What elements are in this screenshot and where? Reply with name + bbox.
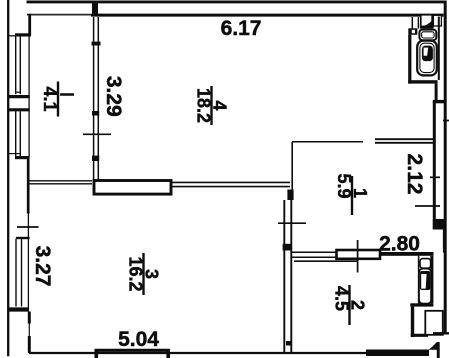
node shelf fixture right: [433, 15, 441, 26]
window A glazing: [15, 36, 17, 94]
wall pier cap 1: [9, 95, 30, 98]
wire left inner wall mid: [27, 157, 30, 214]
wall toilet2 right thick: [430, 256, 433, 303]
wire top wall outer line: [27, 0, 445, 3]
wall room1 top double line: [375, 138, 433, 140]
wire room2 lower line: [294, 260, 358, 262]
node partition junction block 3: [92, 156, 99, 161]
wire left inner wall bottom lower: [28, 336, 31, 353]
wall bathroom partition double line: [411, 17, 413, 29]
node door block room3 top: [94, 181, 171, 195]
window C glazing: [15, 239, 17, 307]
svg-text:16.2: 16.2: [126, 256, 146, 291]
node bathroom dark block: [408, 28, 417, 35]
toilet bowl top-right: [417, 41, 437, 76]
svg-text:5.9: 5.9: [334, 174, 354, 199]
wall balcony box left stub: [95, 349, 99, 358]
label dimension 2.12 rotated: [403, 154, 426, 195]
node partition block b: [286, 341, 292, 346]
wire shaft below thin: [443, 230, 445, 253]
node entry box: [425, 311, 443, 335]
wire room1 top wall thin: [292, 141, 363, 143]
wall bathroom bottom: [408, 80, 437, 83]
wall entry right stub: [437, 342, 440, 358]
wall cap D: [9, 307, 29, 311]
node dimension tick right wall: [443, 120, 449, 122]
node dimension tick 2.80: [357, 240, 359, 273]
toilet bowl bottom-right: [419, 269, 431, 304]
label room 2 area 4.5: [332, 285, 368, 325]
wall cap B: [15, 156, 30, 159]
wall cap A: [15, 33, 31, 36]
label room 3 area 16.2: [126, 253, 162, 295]
node dimension tick 3.27 top: [17, 226, 39, 228]
wall balcony box top edge: [95, 349, 171, 352]
sink basin top-right: [421, 15, 433, 28]
svg-text:4.1: 4.1: [40, 86, 60, 111]
toilet tank bottom-right: [420, 259, 431, 269]
wall bathroom right stub: [435, 84, 438, 100]
wall room4|room3 double line: [172, 181, 291, 183]
wall bathroom left: [408, 35, 411, 84]
node dimension tick mid: [278, 222, 306, 224]
node shaft fill block: [433, 219, 447, 230]
node dimension tick 2.12 bottom: [415, 205, 440, 207]
toilet tank top-right: [419, 30, 436, 41]
wall partition room3|room2 double line: [283, 200, 285, 352]
window B glazing: [15, 111, 17, 156]
svg-text:4.5: 4.5: [332, 286, 352, 311]
wall left inner band top: [28, 14, 31, 36]
svg-text:2.12: 2.12: [403, 154, 426, 195]
wall room(4.1) bottom double line: [29, 180, 92, 182]
wall room2 top thick segment: [380, 252, 434, 256]
wire room1 left wall: [291, 142, 293, 190]
wall partition room4|room(4.1) double line: [93, 17, 95, 180]
node partition junction block 2: [92, 111, 99, 116]
wire left inner wall bottom upper: [28, 312, 31, 324]
wire top wall inner line: [27, 14, 91, 16]
wall toilet2 niche bottom: [410, 303, 433, 306]
svg-text:3.29: 3.29: [102, 76, 125, 117]
svg-text:2.80: 2.80: [379, 233, 420, 256]
wall pier cap 2: [9, 108, 30, 111]
node door swing corner: [428, 342, 437, 350]
wire right outer wall: [444, 1, 447, 334]
node dimension tick 2.12 top: [430, 176, 440, 178]
label room 4 area 18.2: [194, 86, 230, 125]
wire left wall balcony door thin line: [28, 324, 30, 337]
svg-text:6.17: 6.17: [221, 17, 262, 40]
wall shaft left edge: [433, 101, 436, 230]
label dimension 3.27 rotated: [31, 246, 54, 287]
wire entry right line: [433, 332, 449, 334]
svg-text:5.04: 5.04: [118, 328, 159, 351]
wall shaft top edge: [433, 100, 447, 103]
node window block room2: [337, 250, 381, 259]
svg-text:18.2: 18.2: [194, 88, 214, 123]
node junction block room1 corner: [287, 190, 293, 201]
node partition block a: [283, 244, 292, 251]
label room area 4.1: [40, 82, 60, 117]
node top wall divider block: [92, 1, 98, 16]
label room 1 area 5.9: [334, 174, 370, 216]
node partition junction block 1: [92, 42, 101, 46]
wire left outer wall line: [7, 0, 9, 356]
svg-text:3.27: 3.27: [31, 246, 54, 287]
wall entry horizontal: [411, 334, 428, 337]
wall balcony box right stub: [166, 349, 170, 358]
wall room1|room2 thin double line: [292, 251, 337, 253]
wall bottom wall thick segment: [366, 350, 429, 357]
wire bathroom right wall: [438, 17, 440, 81]
label dimension 3.29 rotated: [102, 76, 125, 117]
wall cap C: [16, 237, 30, 239]
wall bottom band left of entry: [405, 351, 428, 356]
node dimension tick 3.29 bottom: [83, 133, 111, 135]
wall entry vertical: [411, 307, 414, 337]
wire bottom wall thin: [29, 352, 366, 354]
wire toilet2 niche left: [418, 256, 420, 305]
node room 4.1 numerator dash: [60, 93, 74, 96]
